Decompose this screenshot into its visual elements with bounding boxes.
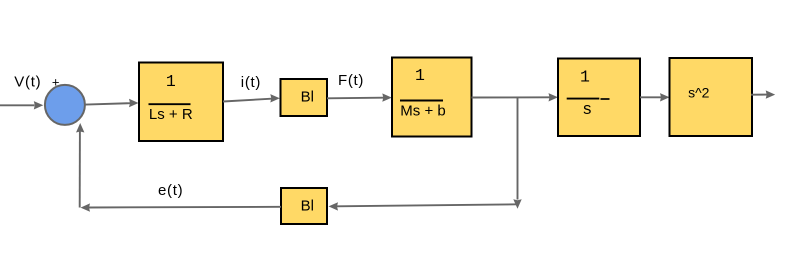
svg-text:s: s — [582, 100, 592, 119]
svg-text:Bl: Bl — [301, 197, 314, 214]
wire: block 1/s to block s^2 — [640, 93, 670, 101]
wire: summing junction to block 1/(Ls+R) — [86, 99, 139, 107]
block Bl (bottom, feedback path) — [281, 188, 327, 224]
svg-text:s^2: s^2 — [688, 84, 710, 100]
wire: input line into summing junction — [0, 101, 43, 109]
svg-text:e(t): e(t) — [158, 182, 183, 199]
svg-text:1: 1 — [166, 72, 176, 91]
svg-text:i(t): i(t) — [241, 74, 261, 91]
block G3: 1/s — [558, 59, 640, 137]
wire: block 1/(Ls+R) to block Bl (top) — [223, 94, 280, 102]
wire: block 1/(Ms+b) to block 1/s (with takeoff junction) — [472, 93, 559, 101]
wire: output arrow from s^2 — [751, 90, 775, 98]
wire: feedback takeoff, vertical down from main line — [513, 97, 521, 208]
svg-text:1: 1 — [415, 66, 425, 85]
block G1: 1/(Ls+R) — [139, 63, 223, 142]
svg-text:1: 1 — [580, 67, 590, 86]
wire: feedback vertical up into summing junction — [76, 123, 84, 208]
svg-text:Ls + R: Ls + R — [149, 106, 193, 123]
svg-text:Ms + b: Ms + b — [400, 103, 445, 120]
block G2: 1/(Ms+b) — [392, 58, 472, 137]
svg-text:Bl: Bl — [301, 88, 314, 105]
svg-text:V(t): V(t) — [14, 74, 41, 91]
block G4: s^2 — [670, 58, 753, 136]
wire: block Bl (top) to block 1/(Ms+b) — [327, 93, 392, 101]
svg-text:F(t): F(t) — [338, 72, 364, 89]
wire: feedback horizontal into block Bl (bottom), arrow pointing left — [329, 202, 518, 210]
summing junction circle — [45, 85, 85, 125]
wire: feedback horizontal from block Bl (bottom) back left, arrow pointing left — [81, 203, 282, 211]
block Bl (top, forward path) — [281, 79, 328, 116]
